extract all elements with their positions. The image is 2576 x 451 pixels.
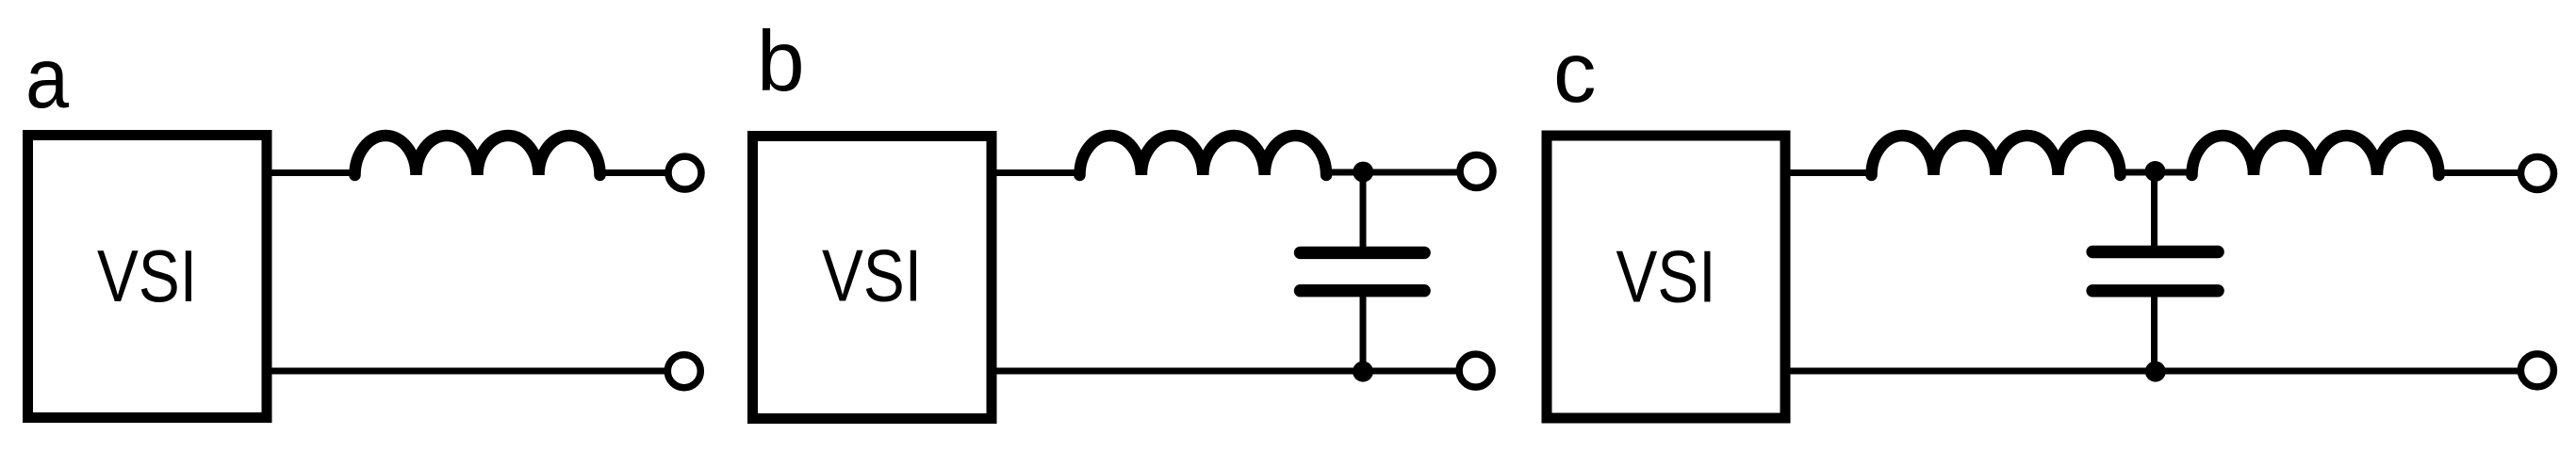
output terminal bottom (circuit a) [667, 355, 700, 388]
inductor L (circuit b) [1080, 136, 1327, 175]
wire: junction down to capacitor (circuit c) [2151, 172, 2158, 249]
capacitor Cf top plate (circuit c) [2092, 246, 2218, 258]
wire: box a to inductor [267, 169, 356, 176]
inductor L2 grid-side (circuit c) [2192, 136, 2439, 175]
VSI inverter block (circuit a) [28, 136, 268, 418]
output terminal top (circuit c) [2521, 157, 2554, 190]
capacitor Cf bottom plate (circuit c) [2092, 284, 2218, 297]
wire: inductor to top terminal (circuit b) [1326, 169, 1460, 176]
node: filter junction top (circuit c) [2145, 161, 2166, 182]
capacitor Cf bottom plate (circuit b) [1301, 284, 1425, 297]
wire: second inductor to top terminal (circuit c) [2438, 169, 2520, 176]
wire: capacitor to bottom rail (circuit c) [2151, 291, 2158, 372]
output terminal top (circuit b) [1460, 155, 1493, 188]
wire: junction down to capacitor (circuit b) [1360, 172, 1367, 250]
VSI inverter block (circuit c) [1547, 136, 1785, 418]
wire: bottom rail (circuit a) [267, 368, 667, 375]
svg-text:VSI: VSI [822, 234, 922, 317]
svg-text:VSI: VSI [97, 234, 197, 317]
wire: box b to inductor [992, 169, 1081, 176]
node: filter junction top (circuit b) [1353, 162, 1373, 183]
svg-text:b: b [757, 14, 805, 109]
inductor L (circuit a) [355, 136, 600, 175]
output terminal top (circuit a) [668, 156, 701, 189]
capacitor Cf top plate (circuit b) [1301, 247, 1425, 259]
inductor L1 inverter-side (circuit c) [1872, 136, 2121, 175]
wire: first inductor to junction (circuit c) [2120, 169, 2193, 176]
svg-text:c: c [1553, 25, 1597, 121]
VSI inverter block (circuit b) [753, 137, 993, 419]
svg-text:VSI: VSI [1616, 235, 1716, 318]
wire: inductor to top terminal (circuit a) [600, 169, 669, 176]
node: filter junction bottom (circuit c) [2145, 362, 2166, 382]
wire: capacitor to bottom rail (circuit b) [1360, 291, 1367, 372]
output terminal bottom (circuit c) [2520, 354, 2553, 387]
wire: bottom rail (circuit b) [992, 368, 1459, 375]
wire: bottom rail (circuit c) [1785, 368, 2518, 375]
svg-text:a: a [25, 31, 69, 126]
output terminal bottom (circuit b) [1459, 354, 1492, 387]
wire: box c to first inductor [1785, 169, 1873, 176]
node: filter junction bottom (circuit b) [1353, 362, 1373, 382]
